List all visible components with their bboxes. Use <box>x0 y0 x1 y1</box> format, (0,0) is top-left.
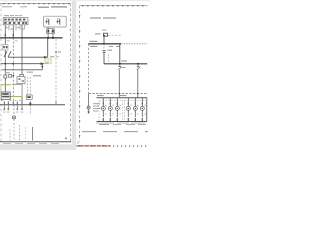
wire h y=57.2 <box>8 56 48 58</box>
injector group box 1 <box>99 100 123 121</box>
resistor pair R1 <box>4 75 12 78</box>
relay contact <box>103 50 106 52</box>
ground symbols G101..G104 <box>3 109 23 111</box>
marks right of arrow <box>45 63 49 64</box>
dashed drop below x=30.3 <box>29 105 31 115</box>
yellow wire h y=96.6 <box>10 96 22 98</box>
twisted pair dashed wires <box>27 77 29 95</box>
main bus right page <box>88 43 121 45</box>
wire v x=119.8 bus to h-line <box>119 44 121 64</box>
dashed stub right of fuse <box>108 34 123 36</box>
ground drops <box>4 105 22 109</box>
junction dots on dashed <box>119 93 139 95</box>
gutter between pages <box>72 0 76 150</box>
right edge wire <box>146 98 148 122</box>
marks right of junction <box>50 56 55 57</box>
injectors INJ1-6 <box>101 98 144 122</box>
wire switch box to connector <box>47 27 49 29</box>
aux box right <box>26 95 32 99</box>
relay box K2 <box>17 77 25 84</box>
connector arrow on y=57.2 <box>44 56 47 59</box>
sensor symbol x=119.8 <box>118 64 121 70</box>
yellow wire label <box>12 84 21 85</box>
h wire y=63.8 <box>104 63 147 65</box>
dotted continuation of bus <box>121 43 148 45</box>
wire relay to h-line <box>103 52 105 63</box>
wire v x=22 <box>21 25 23 105</box>
link v x=42.3 <box>41 64 43 70</box>
ignition switch symbol <box>2 45 11 57</box>
bottom bus right page <box>97 121 148 123</box>
PCM connector block label <box>4 15 22 16</box>
wire v x=13.3 upper <box>12 25 14 38</box>
wire bottom x=32.5 <box>32 127 34 141</box>
right page title text <box>90 17 116 18</box>
wire h y=63.7 <box>1 63 44 65</box>
wire h y=69.8 <box>2 69 42 71</box>
label above junction <box>122 60 128 61</box>
main bus left page <box>0 37 63 39</box>
right page top border <box>80 5 148 7</box>
yellow wire v left edge <box>0 85 2 97</box>
wire fuse to bus <box>103 36 105 44</box>
svg-text:1: 1 <box>77 141 79 145</box>
wire v x=47.7 bus to y57 <box>47 38 49 57</box>
bus junction dot <box>103 43 105 45</box>
diode symbol near x=22 <box>20 74 24 77</box>
long dash separator line <box>82 131 148 133</box>
ground name labels <box>3 111 23 114</box>
text below bottom bus <box>96 123 146 125</box>
title text row left page <box>2 6 67 8</box>
PCM module box <box>1 92 10 99</box>
wire x=119.3 down to lower bus <box>118 70 120 98</box>
dashed wire h y=93.6 <box>89 93 148 95</box>
inline connector under switch box <box>47 29 55 34</box>
fuse F1 <box>103 33 107 36</box>
bus labels <box>90 41 121 47</box>
dashed wire v x=88.6 <box>88 44 90 94</box>
tick x=56 <box>55 101 57 104</box>
pale yellow note box <box>44 58 52 64</box>
switch symbol b <box>59 19 61 25</box>
injector pin labels <box>105 105 146 115</box>
left page right border <box>69 4 71 142</box>
labels above lower bus <box>97 95 127 96</box>
tiny wire labels below bus <box>7 39 18 42</box>
dashed drop x=56 from bus <box>55 39 57 101</box>
black dotted text continuation <box>113 146 146 147</box>
top background strip <box>0 0 150 1</box>
up arrow above bus x=30.3 <box>29 101 32 104</box>
page background left <box>0 0 150 150</box>
left page left border <box>0 4 2 142</box>
PCM connector block C1 <box>3 18 28 25</box>
yellow wire h y=84.8 <box>1 84 11 86</box>
dashed coil wire x=108.5 <box>108 55 110 63</box>
background below left page <box>0 144 72 150</box>
connector arrow on y=63.7 <box>41 62 44 65</box>
bus junction dots <box>4 37 54 39</box>
dashed wire bottom x=19.5 <box>19 125 21 141</box>
label text right <box>33 75 41 76</box>
ground bus left page <box>0 104 65 106</box>
right page left border <box>79 6 81 142</box>
connector circle x=88.6 <box>88 94 90 107</box>
left page bottom border <box>0 141 71 143</box>
pin stub wires under connector <box>9 25 25 31</box>
tiny wire labels above ground bus <box>1 99 21 102</box>
left page top border <box>0 3 71 5</box>
wire x=137.8 down to lower bus <box>137 70 139 98</box>
dashed below junction <box>103 44 105 50</box>
switch symbol a <box>48 19 50 25</box>
wire connector to bus 2 <box>52 34 54 38</box>
fuse label text <box>95 33 101 34</box>
ground ring connector x=14 <box>13 105 15 116</box>
wire label marks under connector <box>6 27 24 29</box>
connector chevrons above ground bus <box>4 101 23 104</box>
wire connector to bus <box>47 34 49 38</box>
bottom tick text row left page <box>3 142 59 145</box>
sensor symbol x=138 <box>137 64 140 70</box>
lower bus right page <box>97 97 148 99</box>
injector group box 2 <box>125 100 147 121</box>
text beside connector <box>93 103 101 111</box>
pressure switch box K1 <box>44 16 67 27</box>
wire v x=5.3 <box>4 25 6 38</box>
dashed wire bottom x=25.5 <box>25 127 27 141</box>
splice dot x=30.3 <box>29 104 31 106</box>
junction dots y=63.7 <box>5 63 15 65</box>
red copyright text <box>77 145 111 146</box>
junction dots y=63.8 <box>119 63 139 65</box>
yellow wire v x=21.8 <box>21 85 23 97</box>
wire v x=13.3 dashed middle <box>12 38 14 105</box>
small text under switches <box>5 72 33 74</box>
dashed wire bottom x=10 <box>9 130 11 141</box>
small marks above bus <box>5 34 14 37</box>
